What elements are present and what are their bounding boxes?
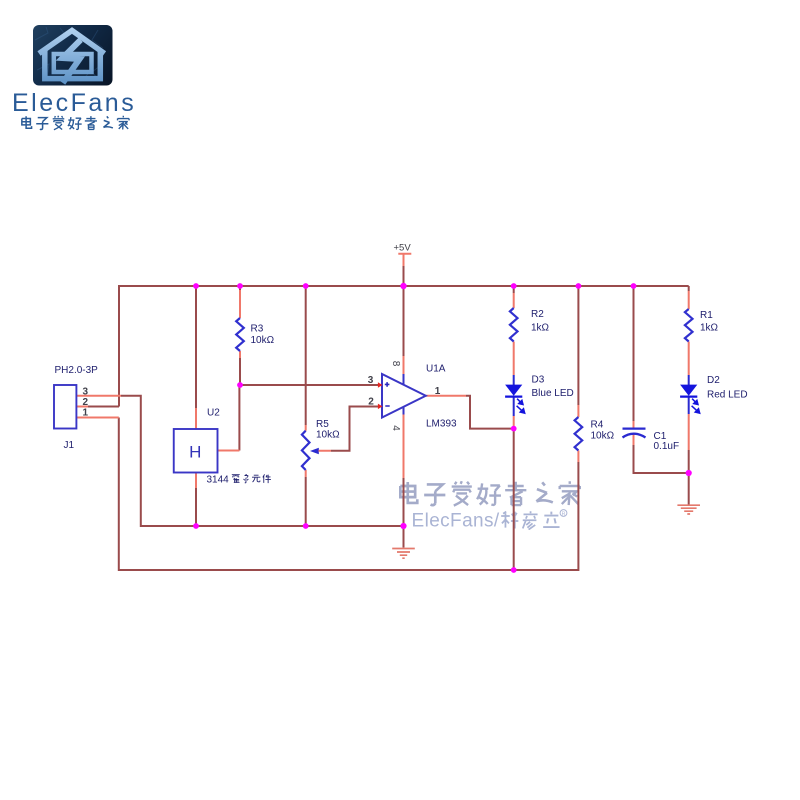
svg-text:3: 3	[82, 386, 88, 397]
svg-text:J1: J1	[64, 440, 75, 451]
svg-text:3144: 3144	[207, 475, 230, 486]
svg-text:2: 2	[82, 397, 88, 408]
svg-text:H: H	[189, 443, 201, 462]
svg-text:1kΩ: 1kΩ	[700, 323, 719, 334]
svg-text:ElecFans: ElecFans	[12, 89, 136, 117]
svg-text:R4: R4	[591, 420, 604, 431]
svg-text:R: R	[562, 511, 566, 517]
svg-text:R2: R2	[531, 309, 544, 320]
svg-text:10kΩ: 10kΩ	[591, 431, 615, 442]
svg-text:8: 8	[390, 361, 401, 367]
svg-text:3: 3	[368, 375, 374, 386]
svg-text:R1: R1	[700, 310, 713, 321]
svg-text:R3: R3	[251, 324, 264, 335]
svg-text:1kΩ: 1kΩ	[531, 323, 550, 334]
svg-text:+5V: +5V	[394, 243, 412, 254]
svg-text:U1A: U1A	[426, 364, 446, 375]
svg-text:Blue LED: Blue LED	[532, 388, 574, 399]
svg-text:1: 1	[435, 386, 441, 397]
svg-text:Red LED: Red LED	[707, 390, 748, 401]
svg-text:LM393: LM393	[426, 419, 457, 430]
svg-text:D3: D3	[532, 375, 545, 386]
svg-text:1: 1	[82, 407, 88, 418]
svg-text:D2: D2	[707, 375, 720, 386]
svg-text:R5: R5	[316, 419, 329, 430]
svg-text:4: 4	[390, 425, 401, 431]
svg-text:U2: U2	[207, 408, 220, 419]
svg-text:2: 2	[368, 397, 374, 408]
svg-text:10kΩ: 10kΩ	[316, 430, 340, 441]
svg-text:0.1uF: 0.1uF	[654, 441, 680, 452]
svg-text:10kΩ: 10kΩ	[251, 335, 275, 346]
svg-text:ElecFans/: ElecFans/	[412, 511, 500, 532]
svg-text:PH2.0-3P: PH2.0-3P	[55, 365, 99, 376]
